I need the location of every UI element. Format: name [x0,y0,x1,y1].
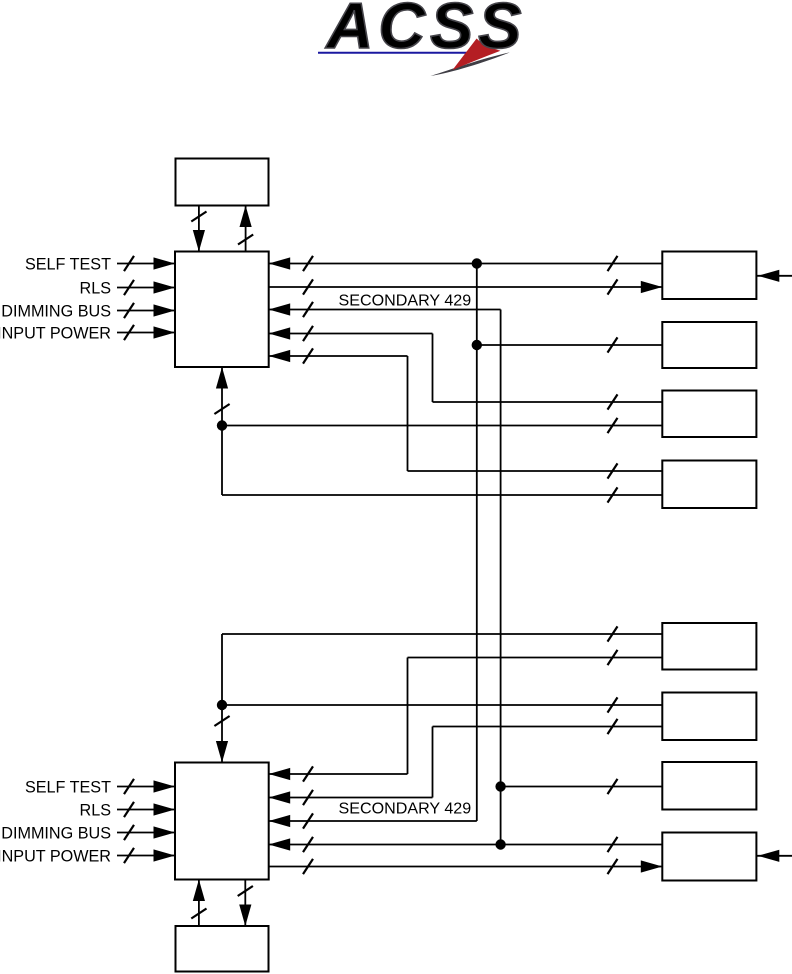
box LRU 6 [662,693,756,741]
arrowhead into LRU 1 right side [758,270,780,282]
bus slash net B left [303,279,313,294]
wire to LRU6 upper [222,704,662,706]
svg-text:RLS: RLS [80,801,112,819]
box transponder unit 1 (top main) [175,252,269,368]
wire vertical bus 1 [476,264,478,822]
wire net E vertical [407,356,409,471]
box LRU 4 [662,461,756,509]
bus slash LRU4 lower wire [608,487,618,502]
junction vertical bus 2 / LRU7 wire [495,781,505,791]
wire RLS 1 [117,287,175,289]
svg-text:ACSS: ACSS [325,0,527,62]
wire vertical bus 2 [500,310,502,845]
wire into LRU8 from page edge [756,855,792,857]
arrowhead INPUT POWER 1 into transponder 1 [154,326,176,338]
bus slash RLS 2 [124,802,134,817]
wire net C horizontal [269,309,501,311]
wire bottom control panel to transponder 2 (up) [198,880,200,927]
box control panel (bottom) [176,926,269,972]
wire control panel to transponder 1 (down) [198,206,200,252]
wire net D horizontal [269,333,433,335]
arrowhead bus1 into transponder 2 [269,815,291,827]
bus slash LRU6 lower wire [608,719,618,734]
arrowhead net E into transponder 1 [269,350,291,362]
box LRU 2 [662,322,756,368]
wire SELF TEST 2 [117,786,175,788]
arrowhead SELF TEST 1 into transponder 1 [154,257,176,269]
svg-text:RLS: RLS [80,279,112,297]
arrowhead net A into transponder 1 [269,257,291,269]
logo blue underline [318,52,471,54]
arrowhead net C into transponder 1 [269,303,291,315]
arrowhead into transponder 1 bottom [216,367,228,389]
wire to LRU5 upper [222,633,662,635]
wire net E horizontal [269,355,408,357]
bus slash net A left [303,256,313,271]
bus slash net E right [608,463,618,478]
bus slash net A right [608,256,618,271]
wire net F horizontal [269,773,408,775]
bus slash on down wire [191,212,206,222]
svg-text:DIMMING BUS: DIMMING BUS [1,302,111,320]
box LRU 5 [662,623,756,670]
bus slash INPUT POWER 2 [124,848,134,863]
bus slash net D right [608,394,618,409]
svg-text:SECONDARY 429: SECONDARY 429 [339,799,472,817]
box LRU 8 [662,833,756,881]
arrowhead INPUT POWER 2 into transponder 2 [154,849,176,861]
wire net I to LRU8 upper [269,844,663,846]
wire net F to LRU5 lower [408,657,663,659]
bus slash LRU2 wire [608,337,618,352]
wire DIMMING BUS 2 [117,832,175,834]
bus slash LRU6 upper wire [608,697,618,712]
wire net F vertical [407,658,409,775]
box LRU 7 [662,762,756,810]
bus slash transponder 2 top wire [214,716,229,726]
arrowhead net D into transponder 1 [269,327,291,339]
arrowhead SELF TEST 2 into transponder 2 [154,780,176,792]
wire LRU5 net vertical down to transponder 2 [221,634,223,763]
wire transponder 2 to bottom control panel (down) [244,880,246,927]
bus slash LRU3 lower wire [608,418,618,433]
junction vertical bus 1 / LRU2 wire [472,340,482,350]
bus slash net B right [608,279,618,294]
wire net D to LRU3 [433,401,663,403]
box LRU 3 [662,391,756,438]
arrowhead into control panel bottom [240,206,252,228]
junction bottom vertical / LRU3 wire [217,420,227,430]
wire DIMMING BUS 1 [117,310,175,312]
svg-text:SELF TEST: SELF TEST [25,255,111,273]
arrowhead net I into transponder 2 [269,838,291,850]
bus slash on down wire bottom [238,886,253,896]
svg-text:SECONDARY 429: SECONDARY 429 [339,292,472,310]
wire bus2 to LRU7 [501,786,663,788]
wire SELF TEST 1 [117,263,175,265]
wire net G to LRU6 lower [433,726,663,728]
svg-text:INPUT POWER: INPUT POWER [0,847,111,865]
logo ACSS group [318,0,526,76]
bus slash transponder 1 bottom wire [214,404,229,414]
wire INPUT POWER 1 [117,332,175,334]
svg-text:DIMMING BUS: DIMMING BUS [1,824,111,842]
box control panel (top) [176,159,269,206]
wire net B secondary 429 to LRU1 [269,286,663,288]
arrowhead into transponder 1 top [193,230,205,252]
bus slash net I left [303,837,313,852]
wire net D vertical [432,334,434,403]
junction net A / vertical bus 1 [472,258,482,268]
wire net A transponder1-LRU1 upper [269,263,663,265]
logo red arrow [453,39,501,71]
bus slash on up wire [238,235,253,245]
junction top vertical / LRU6 wire [217,700,227,710]
arrowhead into LRU 8 right side [758,850,780,862]
arrowhead RLS 1 into transponder 1 [154,281,176,293]
bus slash net J right [608,859,618,874]
wire to LRU4 lower [222,494,662,496]
bus slash DIMMING BUS 1 [124,303,134,318]
bus slash net J left [303,859,313,874]
arrowhead into transponder 2 top [216,741,228,763]
bus slash net E [303,348,313,363]
wire transponder 1 to control panel (up) [245,206,247,252]
svg-text:INPUT POWER: INPUT POWER [0,324,111,342]
wire to LRU3 lower [222,425,662,427]
arrowhead net F into transponder 2 [269,768,291,780]
arrowhead into bottom control panel top [239,905,251,927]
bus slash net F [303,766,313,781]
wire transponder 1 bottom vertical [221,367,223,495]
bus slash LRU5 upper wire [608,626,618,641]
arrowhead net G into transponder 2 [269,791,291,803]
arrowhead net J into LRU 8 [641,860,663,872]
wire net G horizontal [269,797,433,799]
wire net E to LRU4 [408,470,663,472]
junction vertical bus 2 end [495,839,505,849]
bus slash net D [303,326,313,341]
bus slash bus1 bottom [303,813,313,828]
wire net G vertical [432,727,434,798]
bus slash DIMMING BUS 2 [124,825,134,840]
wire INPUT POWER 2 [117,855,175,857]
bus slash INPUT POWER 1 [124,325,134,340]
arrowhead DIMMING BUS 2 into transponder 2 [154,826,176,838]
arrowhead into transponder 2 bottom [193,880,205,902]
bus slash RLS 1 [124,280,134,295]
bus slash LRU5 lower wire [608,650,618,665]
bus slash net G [303,790,313,805]
bus slash SELF TEST 2 [124,779,134,794]
arrowhead DIMMING BUS 1 into transponder 1 [154,304,176,316]
bus slash on up wire bottom [191,909,206,919]
wire bus1 into transponder 2 [269,820,477,822]
arrowhead net B into LRU 1 [641,281,663,293]
wire RLS 2 [117,809,175,811]
box transponder unit 2 (bottom main) [175,763,269,880]
bus slash net I right [608,837,618,852]
wire into LRU1 from page edge [756,275,792,277]
bus slash LRU7 wire [608,779,618,794]
arrowhead RLS 2 into transponder 2 [154,803,176,815]
box LRU 1 (top right) [662,252,756,300]
logo dark swoosh shadow [431,52,511,76]
bus slash SELF TEST 1 [124,256,134,271]
bus slash net C [303,302,313,317]
wire net J to LRU8 lower [269,866,663,868]
svg-text:SELF TEST: SELF TEST [25,778,111,796]
wire bus1 to LRU2 [477,344,663,346]
